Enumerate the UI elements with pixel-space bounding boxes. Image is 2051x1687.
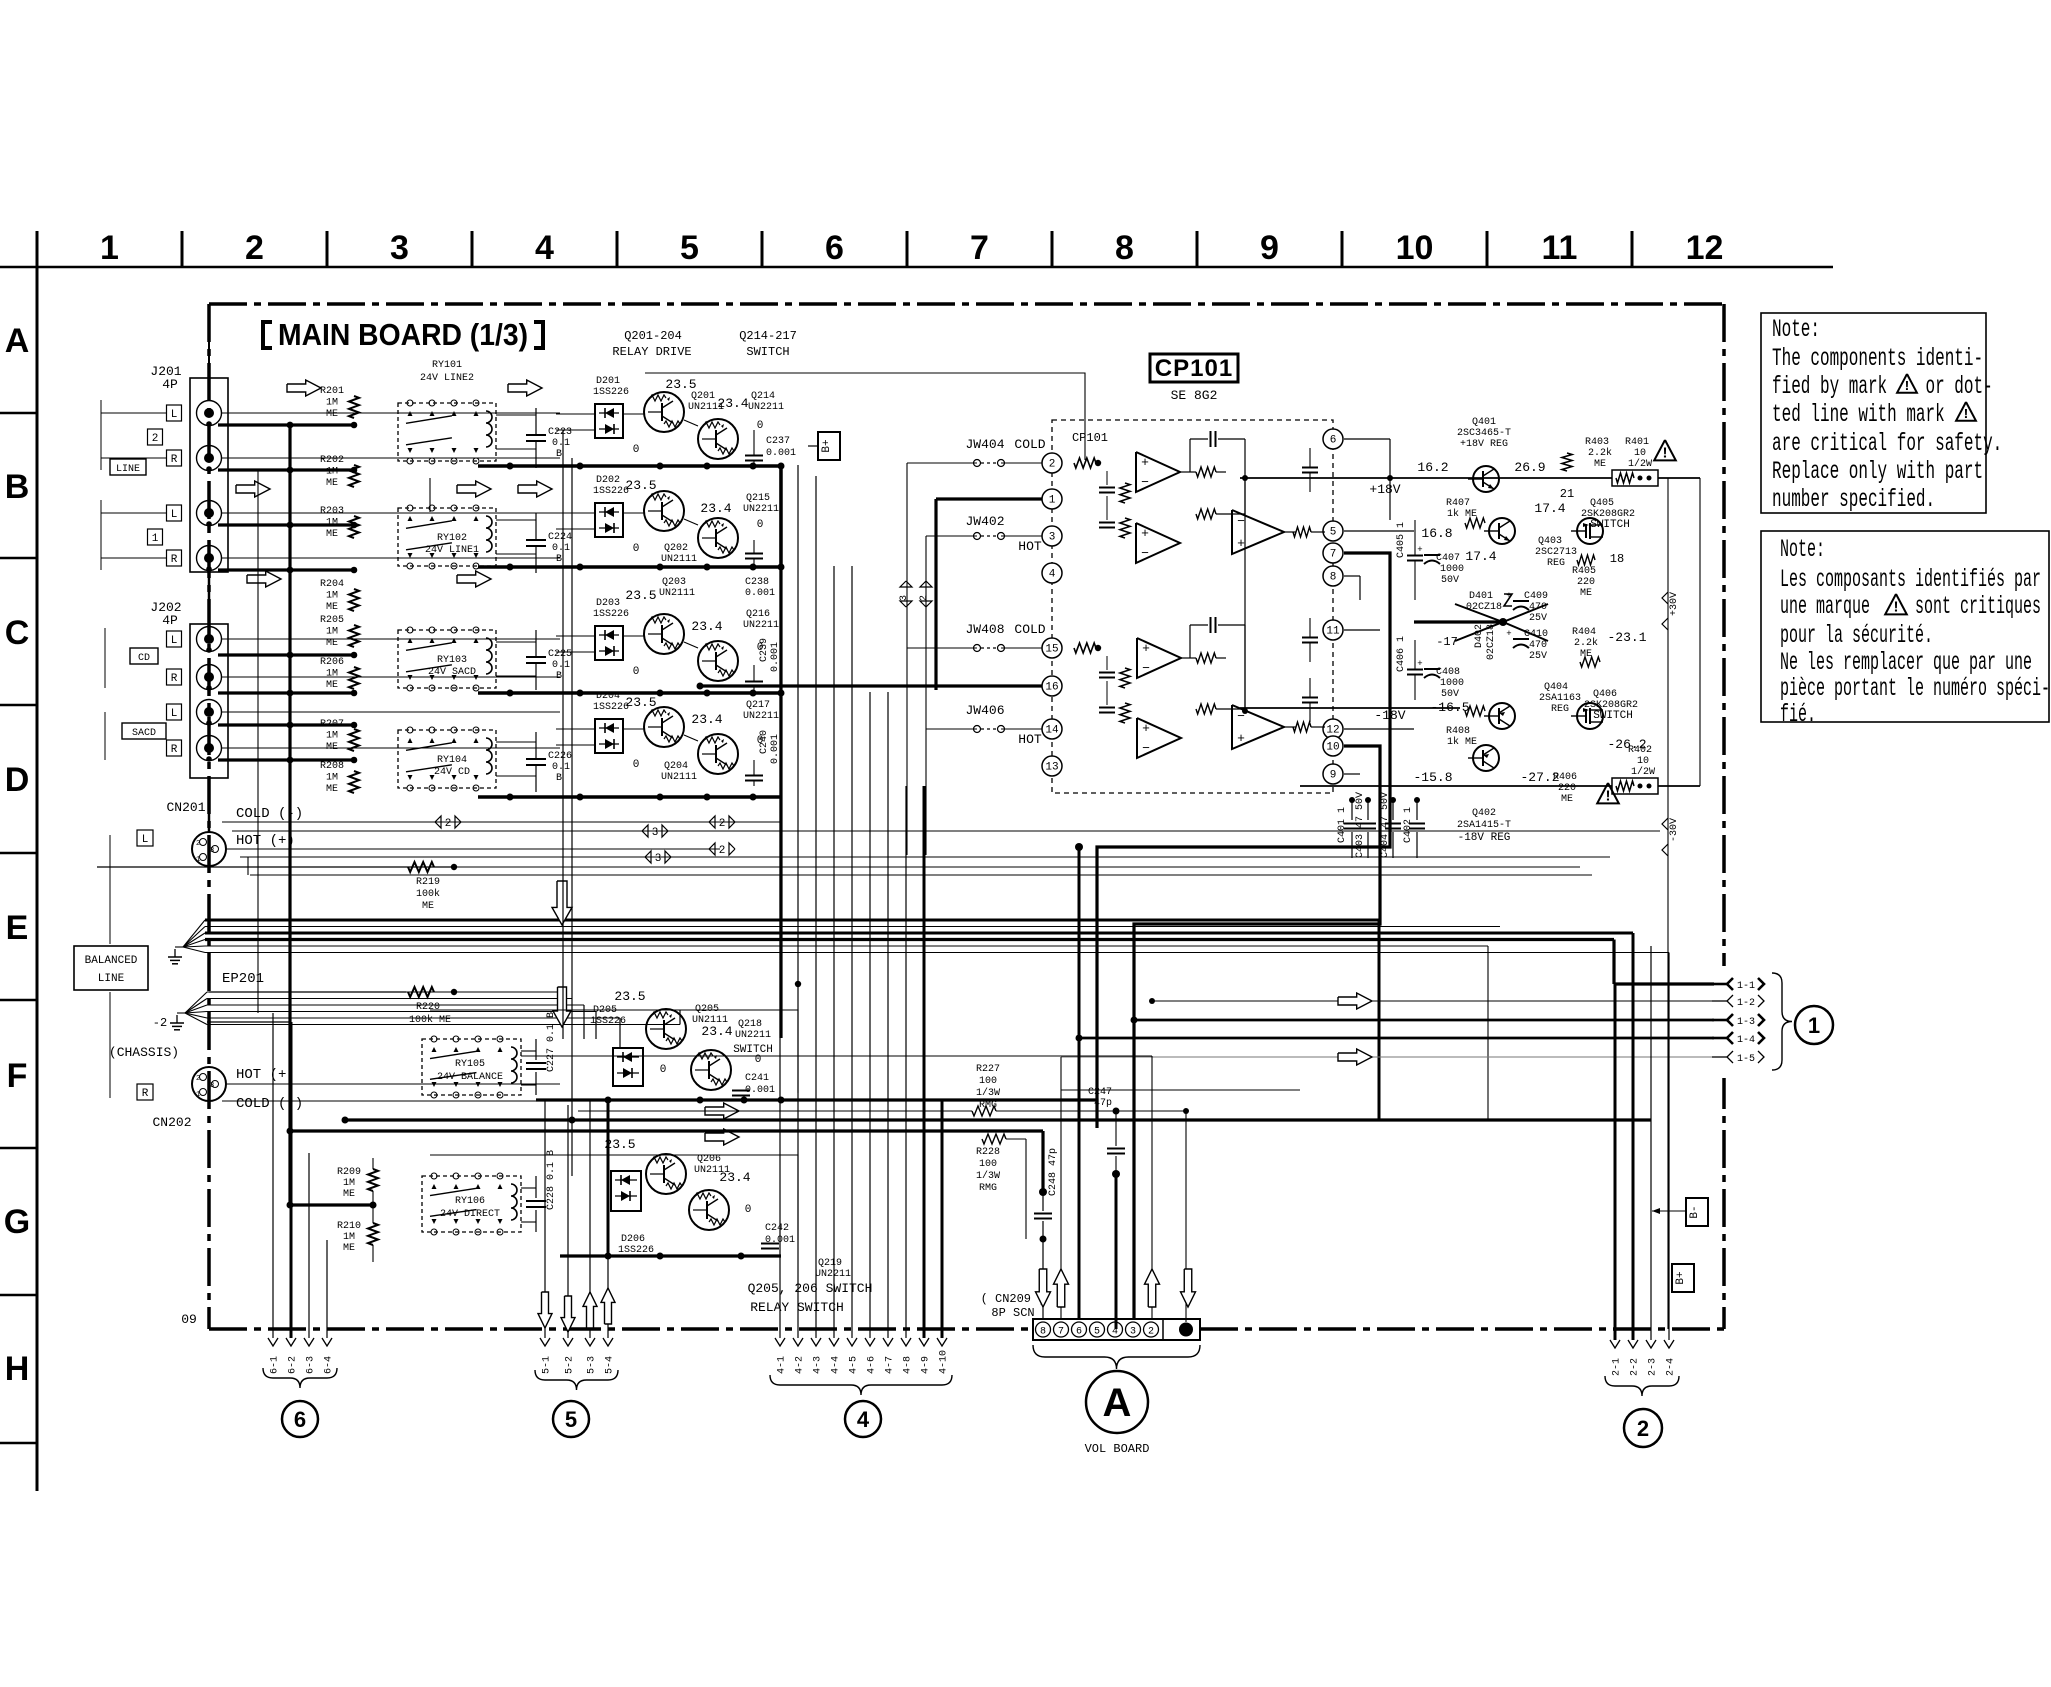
svg-text:COLD: COLD: [1014, 622, 1045, 637]
svg-text:ME: ME: [326, 680, 338, 691]
svg-text:!: !: [1660, 445, 1669, 462]
svg-text:10: 10: [1396, 229, 1434, 267]
svg-text:1: 1: [1049, 495, 1056, 507]
svg-text:Q214: Q214: [751, 391, 775, 402]
svg-text:23.5: 23.5: [625, 695, 656, 710]
svg-text:Q217: Q217: [746, 700, 770, 711]
svg-text:23.5: 23.5: [614, 989, 645, 1004]
svg-text:5: 5: [680, 229, 699, 267]
svg-text:100k: 100k: [416, 888, 440, 900]
svg-text:4P: 4P: [162, 613, 178, 628]
svg-text:+30V: +30V: [1669, 592, 1680, 616]
svg-text:C240: C240: [759, 730, 770, 754]
svg-text:C238: C238: [745, 577, 769, 588]
svg-text:1/3W: 1/3W: [976, 1087, 1000, 1099]
svg-text:B: B: [556, 773, 562, 784]
svg-text:10: 10: [1637, 756, 1649, 767]
svg-text:B: B: [5, 468, 30, 506]
svg-text:1: 1: [1808, 1013, 1820, 1038]
svg-text:2-2: 2-2: [1630, 1358, 1641, 1376]
svg-text:+: +: [1142, 641, 1150, 656]
svg-text:5: 5: [1330, 527, 1337, 539]
svg-text:( CN209 ): ( CN209 ): [981, 1292, 1046, 1306]
svg-text:13: 13: [1045, 762, 1058, 774]
svg-text:Note:: Note:: [1780, 537, 1825, 565]
svg-text:2-1: 2-1: [1612, 1358, 1623, 1376]
svg-text:2: 2: [719, 845, 726, 857]
svg-text:C237: C237: [766, 436, 790, 447]
svg-text:+: +: [1506, 629, 1511, 639]
svg-text:3: 3: [210, 1082, 214, 1090]
svg-text:5-3: 5-3: [587, 1356, 598, 1374]
svg-text:JW402: JW402: [965, 514, 1004, 529]
svg-text:17.4: 17.4: [1465, 549, 1496, 564]
svg-text:5: 5: [1094, 1327, 1100, 1338]
svg-text:1k ME: 1k ME: [1447, 736, 1477, 748]
svg-text:Note:: Note:: [1772, 317, 1820, 344]
svg-text:6-1: 6-1: [270, 1356, 281, 1374]
svg-text:C: C: [5, 614, 30, 652]
svg-text:4-10: 4-10: [939, 1350, 950, 1374]
svg-text:8: 8: [1040, 1327, 1046, 1338]
svg-text:1M: 1M: [326, 467, 338, 478]
svg-text:2: 2: [1148, 1327, 1154, 1338]
svg-text:ME: ME: [343, 1189, 355, 1200]
svg-text:C225: C225: [548, 649, 572, 660]
svg-text:3: 3: [1049, 532, 1056, 544]
svg-text:+18V: +18V: [1369, 482, 1400, 497]
svg-text:4-5: 4-5: [849, 1356, 860, 1374]
svg-text:8: 8: [1115, 229, 1134, 267]
svg-text:A: A: [1103, 1381, 1132, 1425]
svg-text:1-4: 1-4: [1737, 1035, 1755, 1046]
svg-text:2: 2: [196, 1075, 200, 1083]
svg-text:2-3: 2-3: [1648, 1358, 1659, 1376]
svg-text:L: L: [171, 635, 178, 647]
svg-text:24V SACD: 24V SACD: [428, 667, 476, 678]
svg-text:−: −: [1142, 661, 1150, 676]
svg-text:4-9: 4-9: [921, 1356, 932, 1374]
svg-text:0: 0: [633, 666, 640, 678]
svg-text:pour la sécurité.: pour la sécurité.: [1780, 623, 1933, 651]
svg-text:HOT (+): HOT (+): [236, 1067, 295, 1083]
svg-text:RY106: RY106: [455, 1196, 485, 1207]
svg-text:2: 2: [919, 595, 930, 601]
svg-text:9: 9: [1330, 770, 1337, 782]
svg-text:02CZ18: 02CZ18: [1486, 624, 1497, 660]
svg-text:−: −: [1142, 741, 1150, 756]
svg-text:10: 10: [1634, 448, 1646, 459]
svg-text:R209: R209: [337, 1167, 361, 1178]
svg-text:C248 47p: C248 47p: [1048, 1148, 1059, 1196]
svg-text:C223: C223: [548, 427, 572, 438]
svg-text:9: 9: [1260, 229, 1279, 267]
svg-text:1: 1: [100, 229, 119, 267]
svg-text:0.001: 0.001: [745, 588, 775, 599]
svg-text:3: 3: [1130, 1327, 1136, 1338]
svg-text:REG: REG: [1547, 558, 1565, 569]
svg-text:C403 47 50V: C403 47 50V: [1355, 792, 1366, 858]
svg-text:2: 2: [1637, 1416, 1649, 1441]
svg-text:0: 0: [745, 1204, 752, 1216]
svg-text:UN2211: UN2211: [815, 1269, 851, 1280]
svg-text:5: 5: [565, 1407, 577, 1432]
svg-text:5-4: 5-4: [605, 1356, 616, 1374]
svg-text:ME: ME: [326, 478, 338, 489]
svg-text:23.4: 23.4: [719, 1170, 750, 1185]
svg-text:6: 6: [1076, 1327, 1082, 1338]
svg-text:SWITCH: SWITCH: [1593, 710, 1633, 722]
svg-text:R403: R403: [1585, 437, 1609, 448]
svg-text:-18V REG: -18V REG: [1458, 832, 1511, 844]
svg-text:24V DIRECT: 24V DIRECT: [440, 1209, 500, 1220]
svg-text:1000: 1000: [1440, 678, 1464, 689]
svg-text:JW404: JW404: [965, 437, 1004, 452]
svg-text:D202: D202: [596, 475, 620, 486]
svg-text:2SC3465-T: 2SC3465-T: [1457, 428, 1511, 439]
svg-text:C404 47 50V: C404 47 50V: [1380, 792, 1391, 858]
svg-text:(CHASSIS): (CHASSIS): [109, 1045, 179, 1060]
svg-text:0.001: 0.001: [766, 448, 796, 459]
svg-text:100: 100: [979, 1076, 997, 1087]
svg-text:JW408: JW408: [965, 622, 1004, 637]
svg-text:D203: D203: [596, 598, 620, 609]
svg-text:HOT: HOT: [1018, 732, 1042, 747]
svg-text:B-: B-: [1689, 1205, 1701, 1218]
svg-text:COLD: COLD: [1014, 437, 1045, 452]
svg-text:2: 2: [445, 818, 452, 830]
svg-text:C402 1: C402 1: [1403, 807, 1414, 843]
svg-text:!: !: [1903, 379, 1911, 395]
svg-text:10: 10: [1326, 742, 1339, 754]
svg-text:1M: 1M: [326, 627, 338, 638]
svg-text:R: R: [171, 673, 178, 685]
svg-text:Q218: Q218: [738, 1019, 762, 1030]
svg-text:0: 0: [633, 444, 640, 456]
svg-text:Q219: Q219: [818, 1258, 842, 1269]
svg-text:2-4: 2-4: [1666, 1358, 1677, 1376]
svg-text:5-2: 5-2: [565, 1356, 576, 1374]
svg-text:UN2111: UN2111: [661, 772, 697, 783]
svg-text:6-4: 6-4: [324, 1356, 335, 1374]
svg-text:24V CD: 24V CD: [434, 767, 470, 778]
svg-text:23.4: 23.4: [700, 501, 731, 516]
svg-text:G: G: [4, 1203, 30, 1241]
svg-text:12: 12: [1326, 725, 1339, 737]
svg-text:COLD (-): COLD (-): [236, 806, 303, 822]
svg-text:D206: D206: [621, 1234, 645, 1245]
svg-text:RY104: RY104: [437, 755, 467, 766]
svg-text:HOT (+): HOT (+): [236, 833, 295, 849]
svg-text:RY103: RY103: [437, 655, 467, 666]
svg-text:R220: R220: [416, 1002, 440, 1013]
svg-text:8: 8: [1330, 572, 1337, 584]
svg-text:2.2k: 2.2k: [1574, 637, 1598, 649]
svg-text:0.1: 0.1: [552, 543, 570, 554]
svg-text:R203: R203: [320, 506, 344, 517]
svg-text:24V BALANCE: 24V BALANCE: [437, 1072, 503, 1083]
svg-text:ME: ME: [326, 409, 338, 420]
svg-text:-30V: -30V: [1669, 818, 1680, 842]
svg-text:L: L: [171, 509, 178, 521]
svg-text:D401: D401: [1469, 591, 1493, 602]
svg-text:470: 470: [1529, 640, 1547, 651]
svg-text:R408: R408: [1446, 726, 1470, 737]
svg-text:2: 2: [719, 818, 726, 830]
svg-text:L: L: [171, 409, 178, 421]
svg-text:16.2: 16.2: [1417, 460, 1448, 475]
svg-text:6: 6: [1330, 435, 1337, 447]
svg-text:1M: 1M: [326, 518, 338, 529]
svg-text:4: 4: [535, 229, 554, 267]
svg-text:UN2211: UN2211: [743, 620, 779, 631]
svg-text:Q214-217: Q214-217: [739, 329, 797, 343]
svg-text:L: L: [142, 834, 149, 846]
svg-text:CD: CD: [138, 653, 150, 664]
svg-text:number specified.: number specified.: [1772, 487, 1935, 514]
svg-text:4-4: 4-4: [831, 1356, 842, 1374]
svg-text:R202: R202: [320, 455, 344, 466]
svg-text:-17: -17: [1436, 635, 1458, 649]
svg-text:2: 2: [196, 840, 200, 848]
svg-text:ME: ME: [326, 529, 338, 540]
svg-text:0: 0: [757, 519, 764, 531]
svg-text:2: 2: [245, 229, 264, 267]
svg-text:R407: R407: [1446, 498, 1470, 509]
svg-text:R204: R204: [320, 579, 344, 590]
svg-text:ME: ME: [343, 1243, 355, 1254]
svg-text:are critical for safety.: are critical for safety.: [1772, 431, 2002, 458]
svg-text:Q201: Q201: [691, 391, 715, 402]
svg-text:5-1: 5-1: [542, 1356, 553, 1374]
svg-text:R406: R406: [1553, 772, 1577, 783]
svg-text:B+: B+: [821, 439, 833, 452]
svg-text:RELAY DRIVE: RELAY DRIVE: [612, 345, 691, 359]
svg-text:1SS226: 1SS226: [618, 1245, 654, 1256]
svg-text:RY105: RY105: [455, 1059, 485, 1070]
svg-text:ted line with mark: ted line with mark: [1772, 402, 1945, 429]
svg-text:COLD (-): COLD (-): [236, 1096, 303, 1112]
svg-text:4-8: 4-8: [903, 1356, 914, 1374]
svg-text:23.4: 23.4: [691, 619, 722, 634]
svg-text:8P SCN: 8P SCN: [991, 1306, 1034, 1320]
svg-text:6-2: 6-2: [288, 1356, 299, 1374]
svg-text:C401 1: C401 1: [1337, 807, 1348, 843]
svg-text:1M: 1M: [326, 731, 338, 742]
svg-text:R: R: [171, 454, 178, 466]
svg-text:4: 4: [1049, 569, 1056, 581]
svg-text:23.5: 23.5: [665, 377, 696, 392]
svg-text:2SA1163: 2SA1163: [1539, 693, 1581, 704]
svg-text:1SS226: 1SS226: [593, 609, 629, 620]
svg-text:CP101: CP101: [1155, 355, 1233, 382]
svg-text:!: !: [1603, 788, 1612, 805]
svg-text:2SA1415-T: 2SA1415-T: [1457, 820, 1511, 831]
svg-text:Q204: Q204: [664, 761, 688, 772]
svg-text:The components identi-: The components identi-: [1772, 346, 1983, 373]
svg-text:6-3: 6-3: [306, 1356, 317, 1374]
svg-text:220: 220: [1558, 783, 1576, 794]
svg-text:R208: R208: [320, 761, 344, 772]
svg-text:D402: D402: [1474, 624, 1485, 648]
svg-text:Replace only with part: Replace only with part: [1772, 459, 1983, 486]
svg-text:7: 7: [1330, 549, 1337, 561]
svg-text:-18V: -18V: [1374, 708, 1405, 723]
svg-text:17.4: 17.4: [1534, 501, 1565, 516]
svg-text:Q205, 206 SWITCH: Q205, 206 SWITCH: [748, 1281, 873, 1296]
svg-text:R201: R201: [320, 386, 344, 397]
svg-text:REG: REG: [1551, 704, 1569, 715]
svg-text:25V: 25V: [1529, 613, 1547, 624]
svg-text:C239: C239: [759, 638, 770, 662]
svg-text:0: 0: [757, 420, 764, 432]
svg-text:1SS226: 1SS226: [593, 486, 629, 497]
svg-text:R: R: [142, 1088, 149, 1100]
svg-text:15: 15: [1045, 644, 1058, 656]
svg-text:C242: C242: [765, 1223, 789, 1234]
svg-text:ME: ME: [326, 784, 338, 795]
svg-text:0: 0: [633, 759, 640, 771]
svg-text:B+: B+: [1675, 1271, 1687, 1284]
svg-text:6: 6: [825, 229, 844, 267]
svg-text:Q401: Q401: [1472, 417, 1496, 428]
svg-text:4-2: 4-2: [795, 1356, 806, 1374]
svg-text:4-6: 4-6: [867, 1356, 878, 1374]
svg-text:24V LINE1: 24V LINE1: [425, 545, 479, 556]
svg-text:0.001: 0.001: [770, 734, 781, 764]
svg-text:1M: 1M: [326, 773, 338, 784]
svg-text:3: 3: [655, 853, 662, 865]
svg-text:LINE: LINE: [116, 464, 140, 475]
svg-text:23.5: 23.5: [625, 478, 656, 493]
svg-text:1/2W: 1/2W: [1631, 766, 1655, 778]
svg-text:7: 7: [970, 229, 989, 267]
svg-text:1M: 1M: [326, 398, 338, 409]
svg-text:+: +: [1142, 721, 1150, 736]
svg-text:4-3: 4-3: [813, 1356, 824, 1374]
svg-text:R205: R205: [320, 615, 344, 626]
svg-text:+: +: [1417, 659, 1422, 669]
svg-text:E: E: [6, 909, 29, 947]
svg-text:R210: R210: [337, 1221, 361, 1232]
svg-text:Q405: Q405: [1590, 498, 1614, 509]
svg-text:12: 12: [1686, 229, 1724, 267]
svg-text:−: −: [1237, 514, 1245, 529]
svg-text:−: −: [1141, 546, 1149, 561]
svg-text:UN2211: UN2211: [743, 504, 779, 515]
svg-text:09: 09: [181, 1312, 197, 1327]
svg-text:C247: C247: [1088, 1087, 1112, 1098]
svg-text:UN2211: UN2211: [748, 402, 784, 413]
svg-text:BALANCED: BALANCED: [85, 955, 138, 967]
svg-text:R: R: [171, 554, 178, 566]
svg-text:4: 4: [857, 1407, 870, 1432]
svg-text:11: 11: [1326, 626, 1340, 638]
svg-text:4P: 4P: [162, 377, 178, 392]
svg-text:2.2k: 2.2k: [1588, 447, 1612, 459]
svg-text:R401: R401: [1625, 437, 1649, 448]
svg-text:23.4: 23.4: [691, 712, 722, 727]
svg-text:SACD: SACD: [132, 728, 156, 739]
svg-text:+: +: [1417, 545, 1422, 555]
svg-text:23.4: 23.4: [701, 1024, 732, 1039]
svg-text:ME: ME: [326, 602, 338, 613]
svg-text:1M: 1M: [326, 591, 338, 602]
svg-text:!: !: [1962, 407, 1970, 423]
svg-text:HOT: HOT: [1018, 539, 1042, 554]
svg-text:3: 3: [390, 229, 409, 267]
svg-text:3: 3: [652, 827, 659, 839]
svg-text:MAIN BOARD (1/3): MAIN BOARD (1/3): [278, 317, 528, 352]
svg-text:LINE: LINE: [98, 973, 125, 985]
svg-text:18: 18: [1610, 552, 1624, 566]
svg-text:RELAY SWITCH: RELAY SWITCH: [750, 1300, 844, 1315]
svg-text:0: 0: [633, 543, 640, 555]
svg-text:Q203: Q203: [662, 577, 686, 588]
svg-text:UN2211: UN2211: [735, 1030, 771, 1041]
svg-text:1/3W: 1/3W: [976, 1170, 1000, 1182]
svg-text:UN2211: UN2211: [743, 711, 779, 722]
svg-text:3: 3: [899, 595, 910, 601]
svg-text:50V: 50V: [1441, 689, 1459, 700]
svg-text:C408: C408: [1436, 667, 1460, 678]
svg-text:1/2W: 1/2W: [1628, 458, 1652, 470]
svg-text:H: H: [5, 1350, 30, 1388]
svg-text:2: 2: [152, 433, 159, 445]
svg-text:F: F: [7, 1057, 28, 1095]
svg-text:Q216: Q216: [746, 609, 770, 620]
svg-text:RMG: RMG: [979, 1183, 997, 1194]
svg-text:1-5: 1-5: [1737, 1054, 1755, 1065]
svg-text:une marque sont critiques: une marque sont critiques: [1780, 594, 2041, 622]
svg-text:1SS226: 1SS226: [593, 702, 629, 713]
svg-text:0: 0: [660, 1064, 667, 1076]
svg-text:24V LINE2: 24V LINE2: [420, 373, 474, 384]
svg-text:A: A: [5, 322, 30, 360]
svg-text:100k ME: 100k ME: [409, 1014, 451, 1026]
svg-text:1000: 1000: [1440, 564, 1464, 575]
svg-text:1M: 1M: [326, 669, 338, 680]
svg-text:Q201-204: Q201-204: [624, 329, 682, 343]
svg-text:ME: ME: [422, 901, 434, 912]
svg-text:Ne les remplacer que par une: Ne les remplacer que par une: [1780, 650, 2032, 678]
svg-text:SWITCH: SWITCH: [733, 1044, 773, 1056]
svg-text:D: D: [5, 761, 30, 799]
svg-text:R206: R206: [320, 657, 344, 668]
svg-text:50V: 50V: [1441, 575, 1459, 586]
svg-text:2: 2: [1049, 459, 1056, 471]
svg-text:1-3: 1-3: [1737, 1017, 1755, 1028]
svg-text:1SS226: 1SS226: [590, 1016, 626, 1027]
svg-text:UN2111: UN2111: [661, 554, 697, 565]
svg-text:+: +: [1141, 455, 1149, 470]
svg-text:02CZ18: 02CZ18: [1466, 602, 1502, 613]
svg-text:L: L: [171, 708, 178, 720]
svg-text:R227: R227: [976, 1064, 1000, 1075]
svg-text:6: 6: [294, 1407, 306, 1432]
svg-text:+: +: [1237, 731, 1245, 746]
svg-text:SWITCH: SWITCH: [746, 345, 789, 359]
svg-text:C241: C241: [745, 1073, 769, 1084]
svg-text:1: 1: [152, 533, 159, 545]
svg-text:pièce portant le numéro spéci-: pièce portant le numéro spéci-: [1780, 676, 2050, 704]
svg-text:C227 0.1 B: C227 0.1 B: [546, 1012, 557, 1072]
svg-text:R: R: [171, 744, 178, 756]
svg-text:C228 0.1 B: C228 0.1 B: [546, 1150, 557, 1210]
svg-text:1SS226: 1SS226: [593, 387, 629, 398]
svg-text:RY102: RY102: [437, 533, 467, 544]
svg-text:C405 1: C405 1: [1396, 522, 1407, 558]
